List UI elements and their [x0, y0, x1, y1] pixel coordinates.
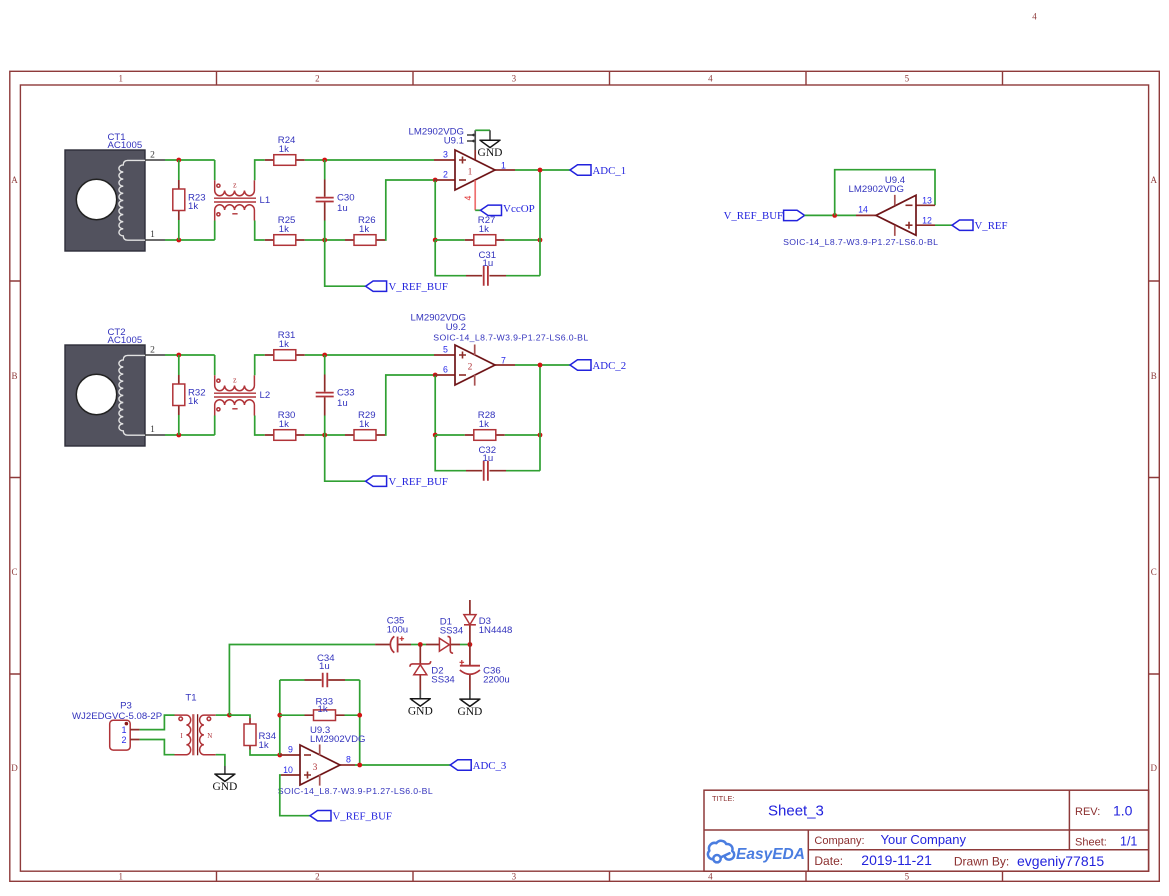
resistor R26 1k: [345, 215, 385, 245]
svg-text:Your Company: Your Company: [881, 832, 967, 847]
wire feedback loop U9.4: [835, 170, 935, 216]
svg-text:1k: 1k: [359, 224, 369, 235]
node D2 top: [418, 642, 423, 647]
svg-text:1k: 1k: [359, 419, 369, 430]
svg-text:AC1005: AC1005: [108, 335, 143, 346]
svg-text:1: 1: [118, 74, 123, 84]
svg-text:D: D: [11, 763, 18, 773]
wire T1 node up to top rail: [229, 645, 375, 716]
node R27 left: [433, 238, 438, 243]
svg-text:1k: 1k: [188, 396, 198, 407]
wire pin10 to V_REF_BUF: [280, 775, 310, 816]
svg-text:1k: 1k: [259, 740, 269, 751]
resistor R23 1k: [173, 180, 206, 220]
common-mode choke L2: [214, 375, 270, 415]
capacitor C30 1u: [316, 160, 355, 240]
node R32 top: [176, 353, 181, 358]
svg-text:VccOP: VccOP: [503, 203, 535, 215]
wire CT1 pin1 to L1: [165, 221, 215, 241]
ground below T1: [212, 766, 237, 793]
wire L2 to R31: [255, 355, 265, 375]
capacitor C32 1u: [435, 365, 540, 481]
svg-text:C: C: [11, 567, 17, 577]
svg-text:1k: 1k: [188, 201, 198, 212]
svg-text:1: 1: [118, 872, 123, 882]
svg-text:10: 10: [283, 765, 293, 775]
resistor R27 1k: [435, 215, 505, 245]
svg-text:5: 5: [905, 872, 910, 882]
svg-text:1u: 1u: [337, 398, 348, 409]
wire CT2 pin1 to L2: [165, 416, 215, 436]
svg-text:1: 1: [468, 168, 473, 178]
svg-text:TITLE:: TITLE:: [712, 794, 735, 803]
svg-text:8: 8: [346, 755, 351, 765]
wire P3 pin1 to T1: [140, 715, 175, 730]
EasyEDA logo: [708, 841, 805, 863]
transformer T1: [175, 693, 216, 756]
wire R26 to opamp pin2: [385, 180, 434, 240]
resistor R28 1k: [435, 410, 505, 440]
wire L1 to R25: [255, 221, 265, 241]
svg-text:V_REF_BUF: V_REF_BUF: [389, 476, 448, 488]
op-amp U9.1 LM2902VDG: [409, 127, 515, 211]
svg-text:D: D: [1151, 763, 1158, 773]
node R27 right: [538, 238, 543, 243]
net flag V_REF_BUF at U9.4: [724, 210, 805, 222]
svg-text:1u: 1u: [319, 661, 330, 672]
wire T1 secondary top: [216, 714, 230, 716]
capacitor C34 1u: [280, 653, 360, 765]
svg-text:GND: GND: [408, 706, 433, 718]
node pin2: [433, 178, 438, 183]
svg-text:GND: GND: [457, 706, 482, 718]
svg-text:1k: 1k: [279, 339, 289, 350]
svg-text:GND: GND: [478, 147, 503, 159]
node R32 bottom: [176, 433, 181, 438]
node C33 bottom: [322, 433, 327, 438]
resistor R25 1k: [265, 215, 305, 245]
svg-text:13: 13: [922, 196, 932, 206]
svg-text:ADC_1: ADC_1: [593, 165, 627, 177]
svg-text:Sheet:: Sheet:: [1075, 836, 1107, 848]
node pin8: [357, 763, 362, 768]
net flag V_REF_BUF ch2: [366, 476, 448, 488]
wire pin8 output: [355, 764, 450, 766]
node output: [538, 168, 543, 173]
svg-text:2019-11-21: 2019-11-21: [861, 852, 932, 868]
diode D2 SS34: [410, 645, 456, 691]
ground below D2: [408, 690, 433, 718]
svg-text:z: z: [233, 181, 237, 190]
net flag V_REF_BUF ch1: [366, 281, 448, 293]
svg-text:N: N: [207, 732, 212, 740]
svg-text:V_REF_BUF: V_REF_BUF: [389, 281, 448, 293]
svg-text:L1: L1: [260, 195, 271, 206]
svg-text:B: B: [11, 371, 17, 381]
svg-text:LM2902VDG: LM2902VDG: [849, 184, 904, 195]
net flag V_REF: [952, 220, 1008, 232]
svg-text:Sheet_3: Sheet_3: [768, 802, 824, 819]
svg-text:T1: T1: [185, 693, 196, 704]
svg-text:5: 5: [443, 345, 448, 355]
op-amp U9.3 LM2902VDG: [278, 725, 433, 796]
svg-text:A: A: [1151, 175, 1158, 185]
node T1 out: [227, 713, 232, 718]
svg-text:12: 12: [922, 216, 932, 226]
svg-text:evgeniy77815: evgeniy77815: [1017, 853, 1104, 869]
svg-text:100u: 100u: [387, 625, 408, 636]
wire R32 stubs: [178, 355, 180, 435]
capacitor C31 1u: [435, 170, 540, 286]
svg-text:3: 3: [512, 872, 517, 882]
common-mode choke L1: [214, 180, 270, 220]
svg-text:1k: 1k: [479, 224, 489, 235]
node R23 bottom: [176, 238, 181, 243]
node R23 top: [176, 158, 181, 163]
wire CT1 pin2 to L1: [165, 160, 215, 180]
resistor R33 1k: [280, 696, 360, 720]
capacitor C33 1u: [316, 355, 355, 435]
node pin6: [433, 373, 438, 378]
svg-text:1k: 1k: [318, 704, 328, 715]
wire L1 to R24: [255, 160, 265, 180]
svg-text:SS34: SS34: [440, 626, 464, 637]
svg-text:ADC_2: ADC_2: [593, 360, 627, 372]
svg-text:WJ2EDGVC-5.08-2P: WJ2EDGVC-5.08-2P: [72, 711, 162, 722]
node C30 bottom: [322, 238, 327, 243]
svg-text:SOIC-14_L8.7-W3.9-P1.27-LS6.0-: SOIC-14_L8.7-W3.9-P1.27-LS6.0-BL: [783, 237, 938, 247]
node D3/C36: [468, 642, 473, 647]
node R33 right: [357, 713, 362, 718]
svg-text:5: 5: [905, 74, 910, 84]
svg-text:2: 2: [315, 872, 320, 882]
svg-text:SS34: SS34: [431, 675, 455, 686]
net flag ADC_3: [450, 760, 506, 772]
svg-text:1u: 1u: [483, 453, 494, 464]
svg-text:1u: 1u: [337, 203, 348, 214]
svg-text:2: 2: [150, 151, 155, 161]
svg-text:V_REF_BUF: V_REF_BUF: [333, 811, 392, 823]
svg-text:REV:: REV:: [1075, 806, 1100, 818]
svg-text:z: z: [233, 376, 237, 385]
svg-text:2: 2: [121, 735, 126, 745]
diode D1 SS34: [426, 617, 464, 654]
svg-text:1: 1: [501, 161, 506, 171]
svg-text:1.0: 1.0: [1113, 802, 1133, 818]
svg-text:2: 2: [315, 74, 320, 84]
svg-text:B: B: [1151, 371, 1157, 381]
wire CT2 pin2 to L2: [165, 355, 215, 375]
wire R34 bottom to pin9 node: [250, 750, 280, 756]
node C33 top: [322, 353, 327, 358]
wire R29 to opamp pin6: [385, 375, 434, 435]
svg-text:EasyEDA: EasyEDA: [736, 846, 805, 863]
wire R24 to opamp pin3: [305, 159, 434, 161]
ground at U9.1: [475, 130, 502, 159]
wire V_REF_BUF to pin14: [805, 214, 856, 216]
svg-text:A: A: [11, 175, 18, 185]
wire to V_REF_BUF: [325, 240, 366, 286]
net flag ADC_2: [570, 360, 626, 372]
svg-text:1: 1: [121, 725, 126, 735]
wire P3 pin2 to T1: [140, 740, 175, 755]
svg-text:Drawn By:: Drawn By:: [954, 855, 1009, 869]
net flag ADC_1: [570, 165, 626, 177]
power flag VccOP: [475, 203, 535, 216]
wire pin2 node down to R27: [434, 180, 436, 240]
svg-text:6: 6: [443, 365, 448, 375]
svg-text:4: 4: [1032, 12, 1037, 22]
svg-text:2: 2: [443, 170, 448, 180]
wire L2 to R30: [255, 416, 265, 436]
svg-text:2200u: 2200u: [483, 675, 510, 686]
svg-text:SOIC-14_L8.7-W3.9-P1.27-LS6.0-: SOIC-14_L8.7-W3.9-P1.27-LS6.0-BL: [433, 332, 588, 342]
svg-text:U9.1: U9.1: [444, 136, 464, 147]
capacitor C35 100u: [375, 616, 411, 653]
pin 11 to GND: [474, 150, 476, 160]
diode D3 1N4448: [464, 600, 512, 645]
svg-text:3: 3: [512, 74, 517, 84]
svg-text:V_REF: V_REF: [975, 220, 1008, 232]
svg-text:1: 1: [150, 230, 155, 240]
svg-text:9: 9: [288, 745, 293, 755]
resistor R34 1k: [244, 718, 277, 751]
svg-text:7: 7: [501, 356, 506, 366]
wire to V_REF_BUF ch2: [325, 435, 366, 481]
resistor R24 1k: [265, 135, 305, 165]
svg-text:1k: 1k: [279, 144, 289, 155]
op-amp U9.2 LM2902VDG: [411, 313, 589, 386]
wire feedback left vertical: [279, 680, 281, 755]
wire D1 to node: [460, 644, 470, 646]
wire R28 to output node: [505, 434, 540, 436]
svg-text:V_REF_BUF: V_REF_BUF: [724, 210, 783, 222]
pin 4 to VccOP: [474, 180, 476, 210]
svg-text:14: 14: [858, 205, 868, 215]
current transformer CT1: [65, 132, 165, 251]
wire pin12 to V_REF: [935, 224, 952, 226]
wire R27 to output node: [505, 239, 540, 241]
capacitor C36 2200u: [460, 645, 510, 691]
resistor R29 1k: [345, 410, 385, 440]
svg-text:1k: 1k: [279, 224, 289, 235]
svg-text:2: 2: [150, 346, 155, 356]
node R33 left: [277, 713, 282, 718]
ground below C36: [457, 690, 482, 718]
svg-text:3: 3: [313, 763, 318, 773]
svg-text:Company:: Company:: [814, 835, 864, 847]
hidden power pin stubs: [467, 135, 473, 141]
svg-text:ADC_3: ADC_3: [473, 760, 507, 772]
svg-text:1k: 1k: [479, 419, 489, 430]
svg-text:3: 3: [443, 150, 448, 160]
wire opamp output: [515, 169, 570, 171]
svg-text:LM2902VDG: LM2902VDG: [310, 734, 365, 745]
wire R23 stubs: [178, 160, 180, 240]
wire C35 to D1: [411, 644, 426, 646]
svg-text:L2: L2: [260, 390, 271, 401]
svg-text:SOIC-14_L8.7-W3.9-P1.27-LS6.0-: SOIC-14_L8.7-W3.9-P1.27-LS6.0-BL: [278, 786, 433, 796]
svg-text:Date:: Date:: [814, 854, 843, 868]
wire pin6 node down to R28: [434, 375, 436, 435]
node C30 top: [322, 158, 327, 163]
wire T1 secondary bottom to GND: [216, 755, 225, 766]
svg-text:C30: C30: [337, 193, 355, 204]
svg-text:2: 2: [468, 363, 473, 373]
svg-text:1k: 1k: [279, 419, 289, 430]
node R28 right: [538, 433, 543, 438]
resistor R32 1k: [173, 375, 206, 415]
svg-text:4: 4: [708, 74, 713, 84]
node output ch2: [538, 363, 543, 368]
resistor R30 1k: [265, 410, 305, 440]
svg-text:C: C: [1151, 567, 1157, 577]
connector P3 WJ2EDGVC-5.08-2P: [72, 701, 162, 751]
wire R31 to opamp pin5: [305, 354, 434, 356]
svg-text:1N4448: 1N4448: [479, 625, 513, 636]
svg-text:1u: 1u: [483, 258, 494, 269]
wire R30 to C33: [305, 434, 345, 436]
resistor R31 1k: [265, 330, 305, 360]
node pin9: [277, 753, 282, 758]
wire opamp output ch2: [515, 364, 570, 366]
svg-text:4: 4: [463, 195, 473, 200]
node U9.4 output: [832, 213, 837, 218]
svg-text:AC1005: AC1005: [108, 140, 143, 151]
svg-text:1/1: 1/1: [1120, 835, 1137, 849]
net flag V_REF_BUF at U9.3: [310, 811, 392, 823]
svg-text:C33: C33: [337, 388, 355, 399]
node R28 left: [433, 433, 438, 438]
op-amp U9.4 LM2902VDG: [783, 175, 938, 247]
current transformer CT2: [65, 327, 165, 446]
svg-text:4: 4: [708, 872, 713, 882]
wire R25 to C30: [305, 239, 345, 241]
svg-text:1: 1: [150, 425, 155, 435]
title block: [704, 790, 1149, 871]
svg-text:GND: GND: [212, 781, 237, 793]
wire node to R34: [229, 715, 250, 718]
